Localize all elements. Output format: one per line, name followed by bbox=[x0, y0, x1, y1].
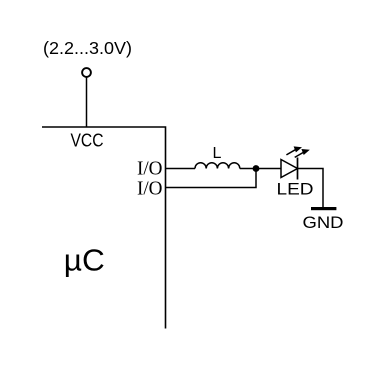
junction node dot bbox=[253, 165, 260, 172]
svg-text:GND: GND bbox=[303, 214, 344, 232]
svg-text:VCC: VCC bbox=[71, 131, 104, 151]
svg-text:LED: LED bbox=[277, 181, 314, 199]
svg-text:(2.2...3.0V): (2.2...3.0V) bbox=[43, 38, 132, 58]
supply terminal circle bbox=[82, 68, 91, 77]
inductor L bbox=[195, 163, 240, 169]
svg-text:µC: µC bbox=[64, 243, 105, 278]
microcontroller U1 box outline bbox=[42, 127, 166, 329]
wire supply to VCC pin bbox=[86, 77, 88, 127]
LED cathode bar bbox=[297, 158, 299, 180]
wire top I/O pin to inductor bbox=[166, 168, 196, 170]
LED light arrow 2 bbox=[295, 149, 310, 157]
wire bottom I/O pin bbox=[166, 169, 257, 188]
svg-text:I/O: I/O bbox=[137, 178, 163, 200]
wire LED cathode to ground bbox=[298, 169, 324, 208]
wire inductor to node bbox=[240, 168, 281, 170]
LED light arrow 1 bbox=[286, 146, 302, 155]
svg-text:I/O: I/O bbox=[137, 158, 163, 180]
LED D1 triangle (anode) bbox=[281, 160, 298, 178]
svg-text:L: L bbox=[213, 145, 222, 162]
ground bar bbox=[311, 207, 336, 210]
